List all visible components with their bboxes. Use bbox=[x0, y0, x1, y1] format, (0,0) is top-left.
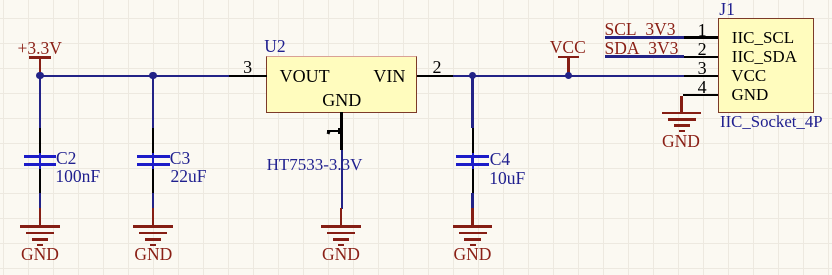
wire VCC rail left bbox=[40, 75, 229, 77]
capacitor C4 bbox=[0, 0, 1, 1]
connector J1 bbox=[0, 0, 1, 1]
wire U2 gnd branch bbox=[341, 150, 343, 210]
capacitor C2 bbox=[0, 0, 1, 1]
wire C3 branch lower bbox=[152, 193, 154, 209]
value IIC_Socket_4P bbox=[720, 112, 823, 132]
power +3.3V bbox=[0, 0, 1, 1]
ground bbox=[0, 0, 1, 1]
ground bbox=[0, 0, 1, 1]
junction bbox=[469, 72, 476, 79]
pin 2 bbox=[0, 0, 1, 1]
ground bbox=[0, 0, 1, 1]
wire C4 branch lower bbox=[471, 193, 473, 209]
pin 3 bbox=[0, 0, 1, 1]
net label SDA_3V3 bbox=[605, 38, 679, 58]
ground bbox=[0, 0, 1, 1]
ground bbox=[0, 0, 1, 1]
net label SCL_3V3 bbox=[605, 19, 676, 39]
pin 4 bbox=[0, 0, 1, 1]
wire SCL_3V3 bbox=[605, 36, 684, 39]
pin 3 bbox=[0, 0, 1, 1]
regulator U2 bbox=[0, 0, 1, 1]
pin 2 bbox=[0, 0, 1, 1]
wire C2 branch lower bbox=[39, 193, 41, 209]
wire VCC rail right bbox=[453, 75, 684, 77]
designator J1 bbox=[719, 0, 735, 19]
wire C2 branch upper bbox=[39, 75, 41, 128]
pin 1 bbox=[0, 0, 1, 1]
junction bbox=[149, 72, 156, 79]
junction bbox=[565, 72, 572, 79]
pin 1 bbox=[0, 0, 1, 1]
designator U2 bbox=[264, 36, 285, 56]
value HT7533-3.3V bbox=[267, 155, 363, 175]
wire SDA_3V3 bbox=[605, 55, 684, 58]
junction bbox=[36, 72, 43, 79]
capacitor C3 bbox=[0, 0, 1, 1]
wire C3 branch upper bbox=[152, 75, 154, 128]
power VCC bbox=[0, 0, 1, 1]
wire C4 branch upper bbox=[471, 75, 473, 128]
